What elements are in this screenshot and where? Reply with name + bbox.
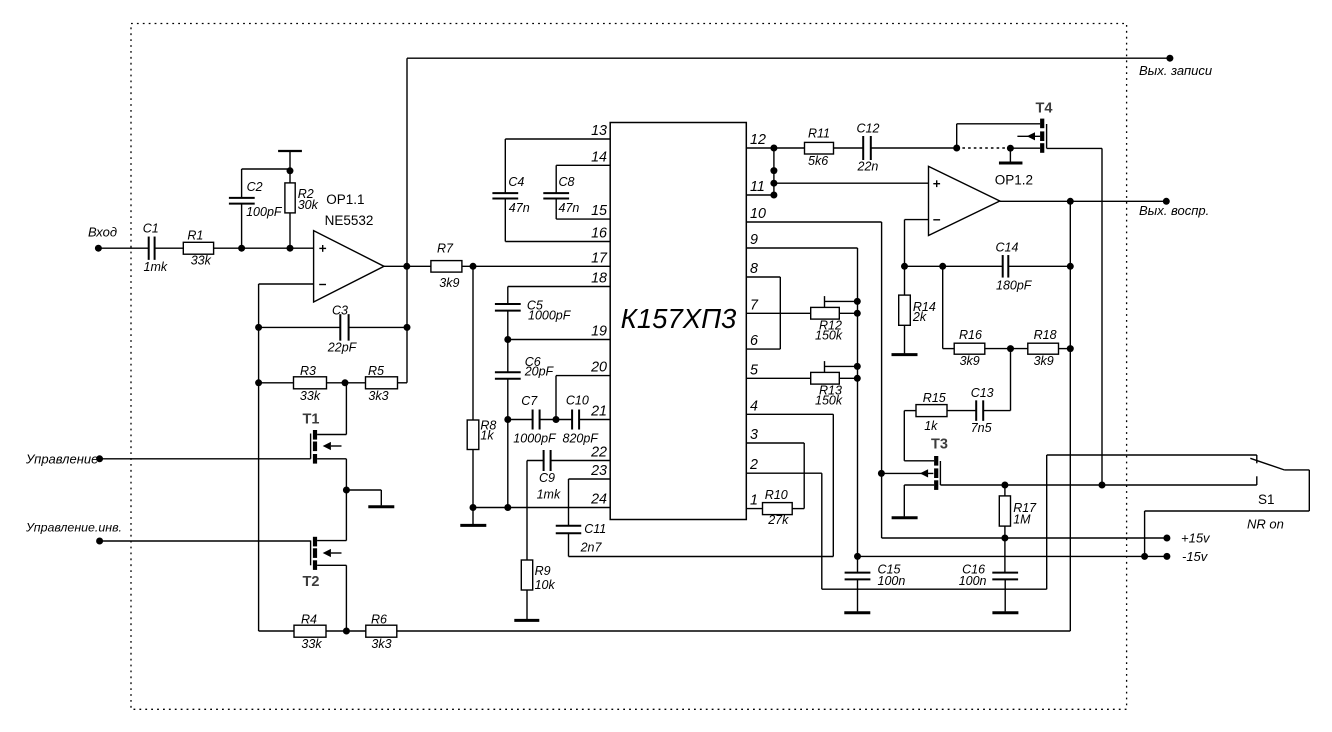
resistor R6 <box>326 630 366 632</box>
capacitor C5 <box>507 287 509 305</box>
wire C2 top to R2 top node <box>242 168 290 170</box>
svg-text:R16: R16 <box>959 328 982 342</box>
svg-text:R18: R18 <box>1034 328 1057 342</box>
wire pin 11 <box>746 194 774 196</box>
wire pin 2 <box>746 472 822 474</box>
node C3 left junction <box>255 324 262 331</box>
capacitor C14 <box>1003 255 1009 277</box>
wire R7 node down to R8 <box>472 266 474 420</box>
node R3 left junction <box>255 379 262 386</box>
wire R7 to pin 17 <box>462 265 610 267</box>
capacitor C11 <box>556 526 582 534</box>
wire output node vertical <box>406 58 408 383</box>
svg-text:33k: 33k <box>191 253 212 267</box>
svg-text:R10: R10 <box>765 488 788 502</box>
node dot mid column <box>770 167 777 174</box>
wire C14 row <box>905 265 1003 267</box>
svg-text:NR on: NR on <box>1247 516 1284 531</box>
wire pin 23 <box>569 478 611 480</box>
svg-text:33k: 33k <box>300 389 321 403</box>
wire pin 16 <box>505 241 610 243</box>
wire pin 19 <box>508 339 610 341</box>
svg-text:3k9: 3k9 <box>439 276 459 290</box>
svg-text:1M: 1M <box>1013 513 1031 527</box>
node R16 R18 junction <box>1007 345 1014 352</box>
svg-text:14: 14 <box>591 149 607 165</box>
svg-text:100pF: 100pF <box>246 205 283 219</box>
node Вых. записи terminal <box>1166 55 1173 62</box>
node C3 right junction <box>404 324 411 331</box>
power rail bar above R2 <box>289 151 291 169</box>
OP1.2 minus sign <box>933 219 940 221</box>
OP1.1 plus sign <box>319 245 326 252</box>
ground R9 <box>526 590 528 619</box>
wire pin 10 to +15 rail <box>746 221 881 223</box>
capacitor C13 <box>976 400 983 421</box>
ground T4 <box>1009 148 1011 161</box>
svg-text:C1: C1 <box>143 222 159 236</box>
wire R18 right <box>1059 348 1071 350</box>
capacitor C10 <box>540 419 573 421</box>
wire Управление.инв to T2 gate <box>100 540 311 542</box>
resistor R9 <box>521 560 532 590</box>
node R3 R5 junction <box>342 379 349 386</box>
svg-text:2k: 2k <box>912 310 927 324</box>
svg-text:C10: C10 <box>566 394 589 408</box>
op-amp OP1.2 <box>929 166 1000 235</box>
wire R8 bottom to ground <box>472 450 474 525</box>
wire OP1.1 output <box>384 265 431 267</box>
svg-text:3k9: 3k9 <box>960 354 980 368</box>
svg-text:R11: R11 <box>808 126 830 140</box>
node C7 left junction <box>504 416 511 423</box>
node T4 source junction <box>1007 145 1014 152</box>
svg-text:Управление.инв.: Управление.инв. <box>25 520 122 534</box>
wire Управление to T1 gate <box>100 458 311 460</box>
svg-text:R1: R1 <box>187 229 203 243</box>
svg-text:C9: C9 <box>539 471 555 485</box>
svg-text:150k: 150k <box>815 393 843 407</box>
svg-text:27k: 27k <box>767 513 789 527</box>
node R17 bottom junction <box>1001 535 1008 542</box>
svg-text:C4: C4 <box>508 175 524 189</box>
svg-text:23: 23 <box>590 463 607 479</box>
wire OP1.2 output <box>1000 200 1167 202</box>
op-amp OP1.1 <box>314 231 384 302</box>
svg-text:3k3: 3k3 <box>371 637 391 651</box>
resistor R11 <box>805 142 834 154</box>
resistor R17 <box>1004 485 1006 496</box>
wire OP1.2 inverting input <box>905 219 929 221</box>
ground C15 <box>844 611 870 614</box>
node OP1.1 output junction <box>403 263 410 270</box>
resistor R16 <box>954 343 985 354</box>
switch S1 <box>1047 454 1257 456</box>
node C14 right junction <box>1067 263 1074 270</box>
svg-text:C12: C12 <box>857 121 880 135</box>
node C7 C10 junction <box>553 416 560 423</box>
node R13 wiper junction <box>854 363 861 370</box>
wire OP1.1 inverting input <box>259 283 313 285</box>
resistor R2 <box>289 213 291 248</box>
node R13 right junction <box>854 375 861 382</box>
ground R14 <box>904 325 906 353</box>
svg-text:1k: 1k <box>924 419 938 433</box>
node T3 substrate junction <box>878 470 885 477</box>
svg-text:C7: C7 <box>521 394 538 408</box>
capacitor C12 <box>863 136 871 160</box>
node S1 return junction <box>1141 553 1148 560</box>
svg-text:C8: C8 <box>559 175 575 189</box>
ground T1 branch <box>346 489 381 491</box>
capacitor C7 <box>508 419 533 421</box>
svg-text:T3: T3 <box>931 437 948 453</box>
node pin 19 junction <box>504 336 511 343</box>
trimmer R13 <box>811 372 840 384</box>
wire pin 3 <box>746 442 804 444</box>
capacitor C6 <box>507 340 509 373</box>
svg-text:9: 9 <box>750 232 758 248</box>
resistor R3 <box>259 382 294 384</box>
wire pin 5 <box>746 377 810 379</box>
svg-text:12: 12 <box>750 132 766 148</box>
svg-text:820pF: 820pF <box>563 432 600 446</box>
svg-text:R6: R6 <box>371 612 387 626</box>
capacitor C2 <box>241 204 243 249</box>
svg-text:OP1.1: OP1.1 <box>326 192 364 207</box>
svg-text:S1: S1 <box>1258 492 1275 507</box>
svg-text:OP1.2: OP1.2 <box>995 173 1033 188</box>
capacitor C9 <box>544 450 551 471</box>
wire pin 9 <box>746 247 857 249</box>
wire pin 14 <box>556 164 610 166</box>
wire R3 to R5 <box>327 382 366 384</box>
resistor R4 <box>259 630 294 632</box>
svg-text:Вых. воспр.: Вых. воспр. <box>1139 203 1209 218</box>
svg-text:NE5532: NE5532 <box>325 213 374 228</box>
svg-text:3k3: 3k3 <box>368 389 388 403</box>
wire pin 20 <box>556 375 610 377</box>
svg-text:Управление: Управление <box>25 451 98 466</box>
wire R5 to output node <box>398 382 408 384</box>
svg-text:7n5: 7n5 <box>971 421 992 435</box>
capacitor C16 <box>1004 538 1006 573</box>
svg-text:5k6: 5k6 <box>808 154 828 168</box>
svg-text:Вых. записи: Вых. записи <box>1139 63 1212 78</box>
svg-text:1000pF: 1000pF <box>513 432 557 446</box>
svg-text:R3: R3 <box>300 364 316 378</box>
svg-text:10k: 10k <box>535 578 556 592</box>
svg-text:33k: 33k <box>301 637 322 651</box>
resistor R1 <box>183 242 213 254</box>
resistor R15 <box>916 405 947 417</box>
svg-text:47n: 47n <box>509 201 530 215</box>
svg-text:R4: R4 <box>301 612 317 626</box>
node junction C2 branch <box>238 245 245 252</box>
node chain bottom junction <box>504 504 511 511</box>
wire pin 7 <box>746 312 810 314</box>
svg-text:R15: R15 <box>923 391 946 405</box>
node gate column junction <box>1099 482 1106 489</box>
svg-text:150k: 150k <box>815 328 843 342</box>
capacitor C8 <box>555 165 557 193</box>
wire pin 18 <box>508 286 610 288</box>
node R4 R6 junction <box>343 628 350 635</box>
node Вход input terminal <box>95 245 102 252</box>
node R16 branch junction <box>939 263 946 270</box>
wire T4 gate to right column <box>1047 147 1102 149</box>
svg-text:19: 19 <box>591 324 607 340</box>
node -15v start junction <box>854 553 861 560</box>
capacitor C1 <box>149 237 155 260</box>
svg-text:C2: C2 <box>247 180 263 194</box>
node C14 left junction <box>901 263 908 270</box>
wire inverting node vertical <box>258 327 260 631</box>
node C12 T4 junction <box>953 145 960 152</box>
OP1.2 plus sign <box>933 180 940 187</box>
node R7 right junction <box>470 263 477 270</box>
svg-text:17: 17 <box>591 250 608 266</box>
svg-text:1mk: 1mk <box>144 260 168 274</box>
svg-text:5: 5 <box>750 362 758 378</box>
svg-text:2n7: 2n7 <box>580 541 603 555</box>
wire R16 to R18 <box>985 348 1028 350</box>
wire dashed link to C12 node <box>957 147 1011 149</box>
svg-text:C14: C14 <box>996 241 1019 255</box>
svg-text:1: 1 <box>750 493 758 509</box>
svg-text:180pF: 180pF <box>996 279 1033 293</box>
svg-text:C3: C3 <box>332 303 348 317</box>
wire chain bottom <box>507 420 509 508</box>
svg-text:T1: T1 <box>303 411 320 427</box>
wire bottom rail R6 to right <box>397 630 1071 632</box>
wire pin 1 <box>746 508 762 510</box>
svg-text:6: 6 <box>750 333 758 349</box>
wire pin 8 to pin 6 <box>746 276 780 278</box>
svg-text:20: 20 <box>590 360 607 376</box>
svg-text:15: 15 <box>591 203 607 219</box>
wire R11 to C12 <box>834 147 864 149</box>
svg-text:13: 13 <box>591 123 607 139</box>
wire pin 15 <box>556 218 610 220</box>
svg-text:20pF: 20pF <box>524 365 555 379</box>
svg-text:47n: 47n <box>559 201 580 215</box>
svg-text:C13: C13 <box>971 386 994 400</box>
wire R17 bottom <box>1004 526 1006 538</box>
wire -15v rail <box>858 555 1167 557</box>
svg-text:1k: 1k <box>480 429 494 443</box>
wire pin 12 <box>746 147 804 149</box>
wire R15 to T3 drain <box>904 410 916 412</box>
wire pin 22 <box>551 460 611 462</box>
svg-text:16: 16 <box>591 226 607 242</box>
svg-text:4: 4 <box>750 398 758 414</box>
wire to OP1.2 plus input <box>774 182 929 184</box>
node T1 source junction <box>343 487 350 494</box>
node R12 wiper junction <box>854 298 861 305</box>
wire pin 13 <box>505 138 610 140</box>
wire pin 2 bottom run to S1 <box>822 588 1047 590</box>
resistor R7 <box>431 261 462 273</box>
svg-text:2: 2 <box>749 457 758 473</box>
svg-text:3k9: 3k9 <box>1034 354 1054 368</box>
node junction R2 branch <box>287 245 294 252</box>
wire C12 to T4 node <box>871 147 957 149</box>
IC U1 К157ХП3 body <box>610 123 746 520</box>
OP1.1 minus sign <box>319 284 326 286</box>
svg-text:+15v: +15v <box>1181 531 1211 546</box>
svg-text:22pF: 22pF <box>327 341 358 355</box>
resistor R18 <box>1028 343 1059 354</box>
wire R16 node down to C13 <box>1010 349 1012 411</box>
capacitor C4 <box>504 139 506 193</box>
wire T3 gate row <box>940 484 1256 486</box>
node Управление terminal <box>96 455 103 462</box>
svg-text:Вход: Вход <box>88 225 117 240</box>
ground C16 <box>992 611 1018 614</box>
node R18 right junction <box>1067 345 1074 352</box>
svg-text:T4: T4 <box>1036 101 1053 117</box>
wire pin 4 <box>746 413 833 415</box>
node pin 11 end <box>770 192 777 199</box>
svg-text:100n: 100n <box>878 574 906 588</box>
wire C9 down to R9 <box>526 461 528 561</box>
wire C14 node down to R16 <box>942 266 944 348</box>
resistor R5 <box>366 377 398 389</box>
svg-text:3: 3 <box>750 427 758 443</box>
svg-text:21: 21 <box>590 404 607 420</box>
svg-text:18: 18 <box>591 271 607 287</box>
svg-text:R9: R9 <box>535 564 551 578</box>
node R12 right junction <box>854 310 861 317</box>
wire output column <box>1069 201 1071 631</box>
svg-text:7: 7 <box>750 297 759 313</box>
wire pin 11 column <box>773 148 775 195</box>
node R8 bottom junction <box>470 504 477 511</box>
node +15v terminal <box>1163 535 1170 542</box>
svg-text:-15v: -15v <box>1182 549 1209 564</box>
node Вых. воспр. terminal <box>1163 198 1170 205</box>
node R17 top junction <box>1001 482 1008 489</box>
resistor R8 <box>467 420 479 450</box>
svg-text:22n: 22n <box>857 160 879 174</box>
node junction R2 top <box>287 167 294 174</box>
node OP1.2 output junction <box>1067 198 1074 205</box>
svg-text:1000pF: 1000pF <box>528 309 572 323</box>
svg-text:11: 11 <box>750 179 765 195</box>
node -15v terminal <box>1163 553 1170 560</box>
wire C1 to R1 <box>155 247 184 249</box>
wire +15v rail <box>882 537 1167 539</box>
wire R10 to pin 3 column <box>792 508 804 510</box>
capacitor C15 <box>857 556 859 572</box>
svg-text:К157ХП3: К157ХП3 <box>621 303 737 334</box>
svg-text:24: 24 <box>590 492 607 508</box>
wire T3 source to ground <box>904 484 934 486</box>
wire input to C1 <box>98 247 148 249</box>
svg-text:8: 8 <box>750 261 758 277</box>
S1 lower contact <box>1256 476 1258 485</box>
svg-text:R5: R5 <box>368 364 384 378</box>
wire C11 bottom to pin 4 column <box>568 533 570 556</box>
svg-text:1mk: 1mk <box>537 487 561 501</box>
svg-text:100n: 100n <box>959 574 987 588</box>
svg-text:22: 22 <box>590 445 607 461</box>
trimmer R12 <box>811 307 840 319</box>
wire T1 to T2 <box>345 490 347 541</box>
resistor R10 <box>763 503 793 515</box>
wire to Вых. записи <box>407 57 1170 59</box>
svg-text:C11: C11 <box>584 522 606 536</box>
svg-text:30k: 30k <box>298 198 319 212</box>
node pin 12 junction <box>770 145 777 152</box>
node plus input junction <box>770 180 777 187</box>
node Управление.инв terminal <box>96 538 103 545</box>
wire pin 24 <box>473 507 610 509</box>
wire R1 to OP1.1 plus input <box>214 247 314 249</box>
dotted frame border <box>131 24 1127 710</box>
svg-text:R7: R7 <box>437 241 454 255</box>
svg-text:T2: T2 <box>303 574 320 590</box>
resistor R14 <box>904 266 906 295</box>
wire C13 to R15 <box>947 410 976 412</box>
svg-text:10: 10 <box>750 206 766 222</box>
capacitor C3 <box>259 326 340 328</box>
